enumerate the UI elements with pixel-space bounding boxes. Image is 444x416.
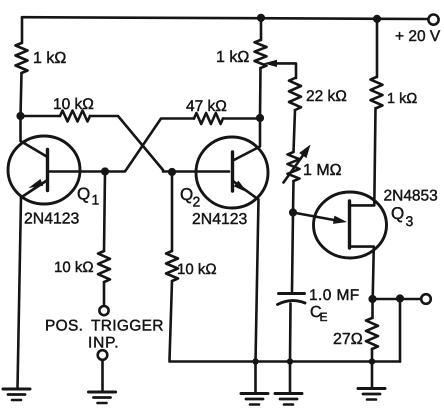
svg-text:2: 2 <box>193 194 201 210</box>
svg-text:INP.: INP. <box>88 335 119 352</box>
svg-text:1 kΩ: 1 kΩ <box>387 91 417 107</box>
svg-text:TRIGGER: TRIGGER <box>91 318 164 335</box>
svg-text:POS.: POS. <box>45 318 83 335</box>
svg-text:E: E <box>320 310 328 324</box>
svg-text:10 kΩ: 10 kΩ <box>177 261 217 278</box>
svg-text:1 MΩ: 1 MΩ <box>303 162 342 179</box>
svg-text:1: 1 <box>92 192 100 208</box>
svg-text:Q: Q <box>391 204 404 223</box>
svg-text:10 kΩ: 10 kΩ <box>54 259 94 276</box>
svg-text:27Ω: 27Ω <box>333 331 363 348</box>
svg-text:1 kΩ: 1 kΩ <box>33 50 66 67</box>
svg-text:Q: Q <box>180 185 193 204</box>
svg-text:Q: Q <box>77 185 90 204</box>
svg-text:47 kΩ: 47 kΩ <box>186 98 227 115</box>
svg-text:22 kΩ: 22 kΩ <box>306 88 347 105</box>
svg-text:3: 3 <box>406 213 414 229</box>
svg-text:10 kΩ: 10 kΩ <box>53 96 94 113</box>
svg-text:+ 20 V: + 20 V <box>395 28 441 45</box>
svg-text:1 kΩ: 1 kΩ <box>216 49 249 66</box>
svg-text:2N4853: 2N4853 <box>384 188 438 205</box>
svg-text:1.0 MF: 1.0 MF <box>309 287 360 304</box>
svg-text:2N4123: 2N4123 <box>192 211 248 228</box>
svg-text:2N4123: 2N4123 <box>24 211 80 228</box>
